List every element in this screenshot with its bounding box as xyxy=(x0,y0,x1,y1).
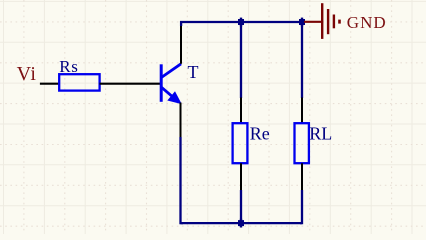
svg-text:RL: RL xyxy=(309,124,332,144)
wire top-left corner piece xyxy=(180,21,182,26)
transistor T xyxy=(161,64,181,104)
junction bottom rail / Re xyxy=(238,219,244,228)
wire RL bottom pin (black) xyxy=(301,163,303,190)
svg-text:Vi: Vi xyxy=(17,63,37,85)
resistor RL xyxy=(295,123,309,163)
resistor Re xyxy=(233,123,248,163)
svg-text:Rs: Rs xyxy=(59,57,78,76)
junction top rail / Re xyxy=(238,18,244,27)
wire Vi to Rs (input stub) xyxy=(40,83,60,85)
wire Re to bottom rail xyxy=(240,190,242,223)
wire bottom rail xyxy=(181,222,303,224)
wire emitter pin (black) xyxy=(180,103,182,138)
svg-text:Re: Re xyxy=(250,124,270,144)
wire emitter to bottom rail xyxy=(181,137,184,223)
resistor Rs xyxy=(59,74,99,90)
wire collector pin (black) xyxy=(180,24,182,64)
wire top rail to RL xyxy=(301,22,303,98)
wire Rs to T base xyxy=(100,83,161,85)
junction top rail / RL / GND xyxy=(299,18,305,27)
svg-text:GND: GND xyxy=(347,13,387,32)
wire RL to bottom rail xyxy=(300,190,302,223)
wire top rail to Re xyxy=(240,22,242,98)
wire Re top pin (black) xyxy=(240,98,242,124)
svg-text:T: T xyxy=(188,62,199,82)
ground GND symbol xyxy=(304,3,340,39)
wire top rail xyxy=(180,21,304,23)
wire RL top pin (black) xyxy=(301,98,303,124)
wire Re bottom pin (black) xyxy=(240,163,242,190)
